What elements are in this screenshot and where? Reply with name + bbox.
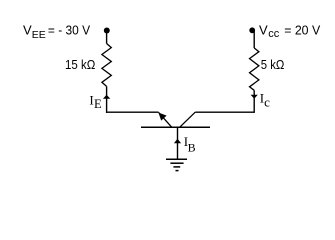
label VCC = 20 V xyxy=(259,23,321,40)
svg-text:= 20 V: = 20 V xyxy=(284,23,320,38)
label IB xyxy=(184,134,196,154)
svg-text:E: E xyxy=(94,97,102,111)
label IE xyxy=(89,93,102,111)
wire R2 top to VCC dot xyxy=(253,30,255,48)
wire emitter horizontal xyxy=(106,111,159,113)
label VEE = -30 V xyxy=(23,22,90,41)
resistor R2 5 kOhm zigzag xyxy=(250,48,259,90)
wire collector vertical up to R2 xyxy=(253,90,255,113)
label IC xyxy=(260,91,270,110)
ground symbol xyxy=(166,159,187,170)
svg-text:V: V xyxy=(23,22,32,37)
svg-text:= - 30 V: = - 30 V xyxy=(48,22,90,37)
transistor Q1 base lead vertical xyxy=(177,127,179,159)
transistor Q1 collector lead xyxy=(180,112,196,127)
wire collector horizontal xyxy=(195,111,254,113)
svg-text:15 kΩ: 15 kΩ xyxy=(65,57,96,72)
node VEE terminal dot xyxy=(104,28,110,34)
arrowhead IB pointing up xyxy=(174,139,181,143)
svg-text:5 kΩ: 5 kΩ xyxy=(261,57,285,72)
transistor Q1 emitter lead with arrow xyxy=(159,112,172,127)
arrowhead IC pointing down xyxy=(251,95,258,99)
svg-text:EE: EE xyxy=(32,29,46,41)
svg-text:B: B xyxy=(188,140,196,154)
svg-text:cc: cc xyxy=(268,28,280,40)
svg-text:V: V xyxy=(259,23,268,38)
node VCC terminal dot xyxy=(249,27,255,33)
wire VEE dot to resistor R1 top xyxy=(106,31,108,44)
resistor R1 15 kOhm zigzag xyxy=(102,44,111,87)
wire R1 bottom to emitter corner xyxy=(106,86,108,113)
transistor Q1 base bar xyxy=(141,126,210,128)
svg-text:c: c xyxy=(264,95,270,110)
arrowhead IE pointing up xyxy=(103,95,110,99)
